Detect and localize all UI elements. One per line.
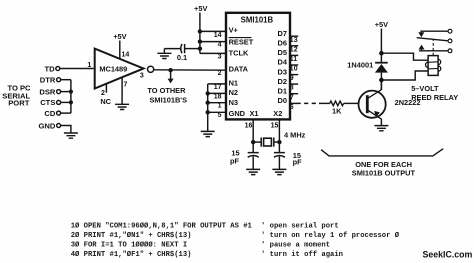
svg-text:X2: X2 [273, 109, 282, 118]
wire stub pin1 N3 [208, 102, 226, 104]
svg-text:13: 13 [290, 37, 298, 44]
node relay terminal 2 [448, 39, 452, 43]
svg-text:3: 3 [140, 73, 144, 80]
svg-text:' open serial port: ' open serial port [261, 223, 339, 231]
svg-text:' turn it off again: ' turn it off again [261, 251, 343, 259]
svg-text:2: 2 [101, 90, 105, 97]
svg-text:SeekIC.com: SeekIC.com [423, 249, 473, 259]
wire MC1489 output to DATA pin2 [154, 69, 226, 71]
IC U2 SMI101B body [226, 13, 290, 120]
svg-text:1: 1 [87, 62, 91, 69]
capacitor 0.1 [181, 44, 185, 53]
wire MC1489 pin14 +5V [119, 41, 121, 59]
junction output node [168, 68, 172, 72]
wire GND terminal to ground [61, 126, 71, 134]
junction relay top [379, 51, 384, 56]
svg-text:9: 9 [290, 75, 294, 82]
wire stub D7 pin13 [290, 35, 298, 37]
svg-text:TD: TD [44, 64, 55, 73]
crystal XTAL 4MHz [253, 141, 261, 143]
ground serial port [64, 133, 78, 138]
capacitor C2 15pF right [274, 153, 285, 158]
svg-text:1Ø OPEN "COM1:96ØØ,N,8,1" FOR: 1Ø OPEN "COM1:96ØØ,N,8,1" FOR OUTPUT AS … [71, 222, 253, 231]
wire stub pin17 N1 [208, 83, 226, 85]
svg-text:+5V: +5V [375, 20, 388, 29]
svg-text:SMI101B: SMI101B [241, 16, 274, 25]
wire arrow to other SMI101B's [170, 70, 172, 79]
junction X1 crystal [251, 140, 255, 144]
wire +5V to diode [380, 29, 382, 63]
svg-text:D7: D7 [278, 29, 287, 38]
svg-text:GND: GND [229, 109, 246, 118]
wire stub D3 pin9 [290, 74, 298, 76]
svg-text:1N4001: 1N4001 [347, 60, 373, 69]
wire stub D0 pin6 [290, 102, 297, 104]
op-amp U1 MC1489 triangle [95, 49, 144, 89]
svg-text:12: 12 [290, 46, 298, 53]
relay K1 coil [428, 56, 438, 76]
wire DTR [61, 79, 71, 81]
wire CTS [61, 101, 71, 103]
svg-text:D1: D1 [278, 86, 287, 95]
wire ground stem [163, 49, 165, 54]
svg-text:GND: GND [39, 121, 56, 130]
wire DSR [61, 91, 71, 93]
wire C1 to ground [252, 156, 254, 169]
svg-text:D4: D4 [278, 58, 288, 67]
node TD terminal [56, 67, 60, 71]
svg-text:RESET: RESET [229, 38, 254, 47]
svg-text:SMI101B OUTPUT: SMI101B OUTPUT [352, 169, 416, 178]
svg-text:D2: D2 [278, 77, 287, 86]
junction N3 [206, 101, 210, 105]
wire relay coil bottom lead [381, 71, 428, 80]
node DSR terminal [57, 90, 61, 94]
wire X1 lead [252, 119, 254, 152]
svg-text:N3: N3 [229, 98, 238, 107]
node relay terminal 3 [448, 49, 452, 53]
wire resistor to base [344, 102, 359, 104]
svg-text:11: 11 [290, 56, 298, 63]
ground C1 [246, 169, 260, 174]
svg-text:N2: N2 [229, 88, 238, 97]
transistor Q1 2N2222 [359, 91, 386, 118]
svg-text:SMI101B'S: SMI101B'S [150, 95, 188, 104]
relay contact blade [417, 38, 448, 41]
node relay terminal 1 [448, 29, 452, 33]
wire TD to MC1489 pin1 [60, 68, 94, 70]
svg-text:D6: D6 [278, 39, 287, 48]
svg-text:14: 14 [122, 52, 130, 59]
svg-text:3: 3 [218, 53, 222, 60]
diode D1 1N4001 [375, 62, 388, 64]
wire handshake bus DTR-CD [70, 80, 72, 113]
svg-text:D5: D5 [278, 48, 287, 57]
svg-text:TO OTHER: TO OTHER [147, 86, 186, 95]
wire collector up [380, 80, 382, 90]
node MC1489 output bubble [148, 66, 154, 72]
ground C2 [272, 169, 286, 174]
wire emitter down [380, 119, 382, 126]
svg-text:1K: 1K [332, 107, 342, 116]
svg-text:DATA: DATA [229, 64, 249, 73]
wire stub D6 pin12 [290, 45, 298, 47]
relay contact up arrow [419, 45, 425, 50]
transistor collector diagonal [368, 90, 381, 99]
node GND terminal [57, 124, 61, 128]
svg-text:CTS: CTS [40, 98, 55, 107]
svg-text:2Ø PRINT #1,"ØN1" + CHR$(13): 2Ø PRINT #1,"ØN1" + CHR$(13) [71, 231, 192, 240]
wire X2 lead [278, 119, 280, 152]
svg-text:+5V: +5V [194, 4, 207, 13]
wire relay actuator dashed link [432, 40, 434, 56]
wire CD [61, 112, 71, 114]
svg-text:D3: D3 [278, 67, 287, 76]
svg-text:4: 4 [218, 42, 222, 49]
svg-text:1: 1 [218, 103, 222, 110]
junction X2 crystal [277, 140, 281, 144]
junction relay bottom / collector [379, 78, 384, 83]
svg-text:3Ø FOR I=1 TO 1ØØØØ: NEXT I: 3Ø FOR I=1 TO 1ØØØØ: NEXT I [71, 241, 187, 250]
junction GND5 [206, 110, 210, 114]
node DTR terminal [57, 78, 61, 82]
junction bypass cap node [198, 46, 202, 50]
wire resistor left lead [319, 102, 330, 104]
ground MC1489 pin7 [115, 104, 129, 109]
svg-text:14: 14 [214, 32, 222, 39]
svg-text:' turn on relay 1 of processor: ' turn on relay 1 of processor Ø [261, 231, 400, 240]
wire stub pin3 TCLK [200, 52, 226, 54]
junction V+ [198, 29, 202, 33]
wire stub D1 pin7 [290, 93, 298, 95]
svg-text:pF: pF [230, 156, 240, 165]
wire stub pin18 N2 [208, 92, 226, 94]
svg-text:10: 10 [290, 66, 298, 73]
svg-text:DTR: DTR [40, 76, 56, 85]
node CD terminal [57, 111, 61, 115]
ground bypass cap [157, 53, 171, 58]
svg-text:4Ø PRINT #1,"ØF1" + CHR$(13): 4Ø PRINT #1,"ØF1" + CHR$(13) [71, 250, 192, 259]
svg-text:17: 17 [214, 84, 222, 91]
svg-text:REED RELAY: REED RELAY [411, 93, 458, 102]
wire bypass cap left lead [164, 48, 180, 50]
svg-text:16: 16 [245, 123, 253, 130]
svg-text:NC: NC [100, 97, 111, 106]
junction N2 [206, 91, 210, 95]
transistor emitter diagonal [368, 110, 381, 119]
wire MC1489 pin7 to ground [121, 77, 123, 104]
svg-text:8: 8 [290, 85, 294, 92]
svg-text:18: 18 [214, 93, 222, 100]
svg-text:4 MHz: 4 MHz [284, 130, 306, 139]
wire D0 dashed to resistor [297, 102, 321, 104]
wire relay coil top lead [381, 53, 428, 60]
svg-text:7: 7 [123, 81, 127, 88]
svg-text:6: 6 [290, 104, 294, 111]
svg-text:7: 7 [290, 94, 294, 101]
junction DSR bus [69, 90, 73, 94]
svg-text:PORT: PORT [8, 99, 29, 108]
brace one-for-each [321, 149, 443, 156]
svg-text:' pause a moment: ' pause a moment [261, 242, 330, 250]
svg-text:N1: N1 [229, 78, 238, 87]
wire stub pin4 RESET [200, 41, 226, 43]
relay contact down arrow [418, 32, 424, 37]
node CTS terminal [57, 100, 61, 104]
relay contact NC line [420, 30, 448, 32]
ground emitter [374, 126, 388, 131]
svg-text:CD: CD [44, 109, 55, 118]
wire N-pin ground bus [207, 84, 209, 131]
svg-text:2: 2 [218, 70, 222, 77]
svg-text:MC1489: MC1489 [99, 65, 127, 74]
svg-text:V+: V+ [229, 25, 239, 34]
svg-text:X1: X1 [249, 109, 258, 118]
relay contact NO line [419, 50, 448, 52]
resistor R1 1K [330, 101, 344, 106]
svg-text:DSR: DSR [39, 87, 56, 96]
capacitor C1 15pF left [248, 153, 259, 158]
svg-text:pF: pF [293, 157, 303, 166]
svg-text:0.1: 0.1 [177, 53, 187, 62]
svg-text:5–VOLT: 5–VOLT [411, 84, 439, 93]
wire C2 to ground [278, 156, 280, 169]
wire +5V rail at chip [199, 13, 201, 54]
svg-text:5: 5 [218, 112, 222, 119]
wire diode to collector node [380, 73, 382, 90]
svg-text:+5V: +5V [113, 32, 126, 41]
wire stub D2 pin8 [290, 83, 298, 85]
svg-text:D0: D0 [278, 96, 287, 105]
ground chip N pins [201, 131, 215, 136]
svg-text:15: 15 [271, 123, 279, 130]
junction RESET [198, 39, 202, 43]
svg-text:TCLK: TCLK [229, 49, 249, 58]
wire stub pin14 V+ [200, 30, 226, 32]
wire bypass cap right lead [185, 48, 200, 50]
wire stub D4 pin10 [290, 64, 298, 66]
wire stub pin5 GND [208, 111, 226, 113]
wire stub D5 pin11 [290, 54, 298, 56]
junction CTS bus [69, 100, 73, 104]
wire MC1489 pin2 NC [105, 84, 107, 93]
transistor emitter arrowhead [374, 111, 380, 117]
